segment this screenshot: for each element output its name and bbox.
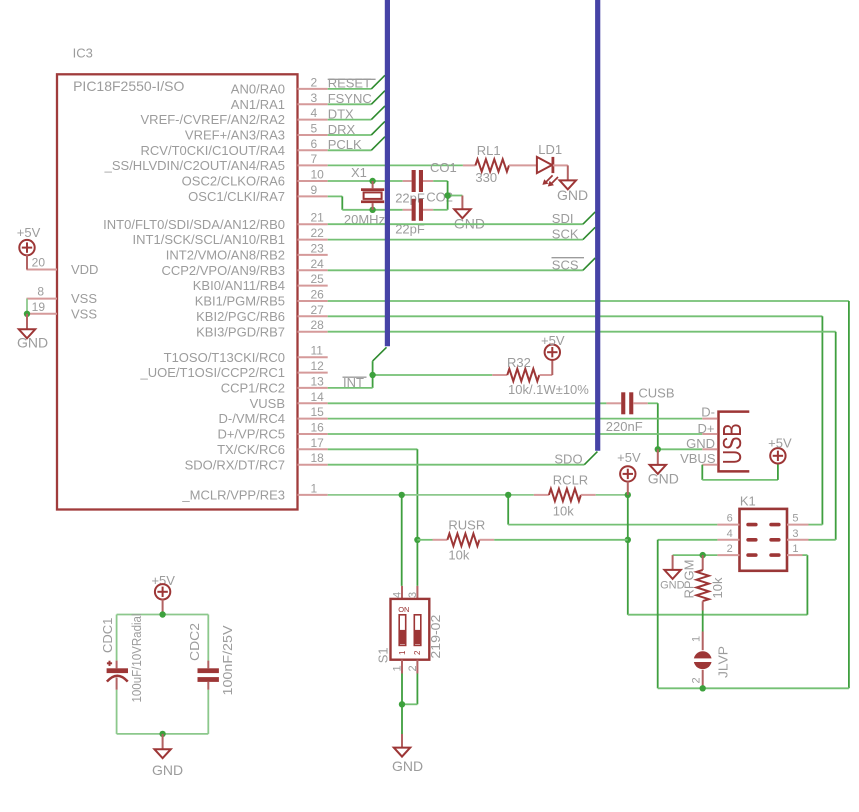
wire CDC loop left bbox=[116, 615, 118, 734]
crystal X1 20MHz bbox=[344, 165, 385, 227]
wire +5V down to RUSR and K1 pin1 loop bbox=[628, 495, 808, 615]
bus (left, to top connector) bbox=[385, 0, 390, 346]
+5V supply symbol (VBUS) bbox=[768, 435, 792, 463]
+5V supply symbol (R32) bbox=[541, 333, 565, 375]
svg-text:SCK: SCK bbox=[552, 227, 579, 242]
svg-text:7: 7 bbox=[311, 152, 318, 166]
wire net USR (RC6 pin17 to S1) bbox=[328, 449, 418, 586]
wire CDC loop right bbox=[207, 615, 209, 734]
svg-text:10k/.1W±10%: 10k/.1W±10% bbox=[508, 382, 589, 397]
ground GND (CO2) bbox=[454, 196, 485, 232]
wire net FSYNC bbox=[328, 91, 385, 105]
svg-text:4: 4 bbox=[391, 592, 403, 598]
svg-text:GND: GND bbox=[557, 187, 588, 203]
svg-text:20: 20 bbox=[32, 256, 46, 270]
svg-text:27: 27 bbox=[311, 303, 325, 317]
svg-text:CDC2: CDC2 bbox=[187, 623, 202, 661]
svg-text:K1: K1 bbox=[740, 494, 756, 509]
svg-text:1: 1 bbox=[690, 636, 702, 642]
wire CUSB right to USB GND bbox=[648, 403, 703, 449]
svg-text:2: 2 bbox=[407, 665, 419, 671]
node USR junction bbox=[414, 537, 420, 543]
svg-text:KBI3/PGD/RB7: KBI3/PGD/RB7 bbox=[196, 324, 285, 339]
resistor RCLR 10k bbox=[534, 472, 596, 518]
svg-text:RUSR: RUSR bbox=[448, 517, 485, 532]
wire CDC loop top bbox=[117, 614, 209, 616]
svg-text:100nF/25V: 100nF/25V bbox=[220, 625, 235, 695]
wire net SDO bbox=[328, 452, 598, 465]
svg-text:OSC1/CLKI/RA7: OSC1/CLKI/RA7 bbox=[188, 189, 285, 204]
svg-text:T1OSO/T13CKI/RC0: T1OSO/T13CKI/RC0 bbox=[164, 350, 285, 365]
svg-text:_SS/HLVDIN/C2OUT/AN4/RA5: _SS/HLVDIN/C2OUT/AN4/RA5 bbox=[104, 158, 285, 173]
svg-text:VREF-/CVREF/AN2/RA2: VREF-/CVREF/AN2/RA2 bbox=[141, 112, 285, 127]
capacitor CO1 22pF bbox=[395, 160, 457, 206]
svg-text:INT0/FLT0/SDI/SDA/AN12/RB0: INT0/FLT0/SDI/SDA/AN12/RB0 bbox=[103, 217, 285, 232]
wire net SCK bbox=[328, 227, 596, 239]
IC3 right-side pin stubs bbox=[298, 89, 328, 495]
svg-text:+5V: +5V bbox=[617, 450, 641, 465]
node label INT bbox=[343, 375, 367, 390]
svg-text:VSS: VSS bbox=[71, 291, 97, 306]
wire K1 pin2 to GND and RPGM bbox=[673, 554, 718, 556]
node OSC1 junction bbox=[369, 207, 375, 213]
svg-text:S1: S1 bbox=[375, 647, 390, 663]
svg-text:219-02: 219-02 bbox=[428, 615, 443, 659]
ground GND (LD1) bbox=[557, 180, 588, 202]
wire VSS pin8-pin19 bbox=[26, 299, 28, 314]
svg-text:2: 2 bbox=[727, 543, 733, 555]
ground GND (CDC) bbox=[152, 734, 183, 778]
svg-text:GND: GND bbox=[17, 335, 48, 351]
svg-text:+5V: +5V bbox=[17, 225, 41, 240]
svg-text:+5V: +5V bbox=[768, 435, 792, 450]
svg-text:1: 1 bbox=[398, 650, 407, 655]
wire OSC1 jog to crystal bottom bbox=[328, 196, 403, 209]
svg-text:AN0/RA0: AN0/RA0 bbox=[231, 82, 285, 97]
wire net DRX bbox=[328, 121, 385, 135]
node INT junction bbox=[369, 372, 375, 378]
wire RA5 to RL1 bbox=[328, 164, 463, 166]
svg-text:24: 24 bbox=[311, 257, 325, 271]
node +5V junction bbox=[625, 492, 631, 498]
node MCLR junction (K1) bbox=[505, 492, 511, 498]
wire K1 pin4 to PGM loop bbox=[658, 540, 849, 689]
resistor RUSR 10k bbox=[417, 517, 494, 562]
svg-text:1: 1 bbox=[792, 543, 798, 555]
svg-text:2: 2 bbox=[311, 75, 318, 89]
node USB GND junction bbox=[655, 446, 661, 452]
svg-text:19: 19 bbox=[32, 300, 46, 314]
resistor RL1 330 bbox=[463, 143, 537, 185]
svg-text:12: 12 bbox=[311, 359, 325, 373]
IC3 pin names (inside box, right aligned) bbox=[103, 82, 285, 503]
node label RESET bbox=[328, 76, 376, 91]
wire RPGM to JLVP bbox=[702, 611, 704, 632]
svg-text:SCS: SCS bbox=[552, 257, 579, 272]
capacitor CO2 22pF bbox=[395, 190, 453, 237]
svg-text:KBI2/PGC/RB6: KBI2/PGC/RB6 bbox=[196, 309, 285, 324]
svg-text:LD1: LD1 bbox=[538, 142, 562, 157]
svg-text:RL1: RL1 bbox=[477, 143, 501, 158]
capacitor CDC1 100uF/10V (polarized) bbox=[100, 613, 144, 702]
svg-text:SDO/RX/DT/RC7: SDO/RX/DT/RC7 bbox=[185, 457, 285, 472]
svg-text:INT1/SCK/SCL/AN10/RB1: INT1/SCK/SCL/AN10/RB1 bbox=[133, 232, 285, 247]
+5V supply symbol (RCLR/RUSR) bbox=[617, 450, 641, 495]
IC3 left-side pins VDD/VSS bbox=[27, 256, 99, 322]
connector K1 (ICSP header 2x3) bbox=[717, 494, 808, 571]
svg-text:CDC1: CDC1 bbox=[100, 618, 115, 653]
ground GND (S1) bbox=[392, 734, 423, 774]
jumper JLVP bbox=[690, 632, 730, 689]
svg-text:CCP2/VPO/AN9/RB3: CCP2/VPO/AN9/RB3 bbox=[161, 263, 285, 278]
svg-text:13: 13 bbox=[311, 374, 325, 388]
svg-text:RCV/T0CKI/C1OUT/RA4: RCV/T0CKI/C1OUT/RA4 bbox=[141, 143, 285, 158]
resistor R32 10k/.1W (pull-up on INT) bbox=[492, 355, 589, 397]
LED LD1 bbox=[537, 142, 568, 187]
connector USB bbox=[680, 405, 749, 472]
wire RCLR right to +5V node bbox=[596, 494, 628, 496]
node RPGM junction bbox=[700, 552, 706, 558]
node label SCS bbox=[552, 257, 585, 272]
svg-text:3: 3 bbox=[792, 528, 798, 540]
svg-text:CO1: CO1 bbox=[430, 160, 457, 175]
svg-text:IC3: IC3 bbox=[73, 46, 93, 61]
svg-text:14: 14 bbox=[311, 390, 325, 404]
resistor RPGM 10k (vertical) bbox=[682, 555, 726, 610]
svg-text:D+/VP/RC5: D+/VP/RC5 bbox=[217, 427, 285, 442]
svg-text:10k: 10k bbox=[553, 504, 574, 519]
wire net DTX bbox=[328, 106, 385, 120]
svg-text:D-: D- bbox=[701, 405, 715, 420]
svg-text:CCP1/RC2: CCP1/RC2 bbox=[221, 381, 285, 396]
svg-text:26: 26 bbox=[311, 288, 325, 302]
capacitor CDC2 100nF/25V bbox=[187, 623, 235, 696]
svg-text:2: 2 bbox=[413, 650, 422, 655]
svg-text:VREF+/AN3/RA3: VREF+/AN3/RA3 bbox=[185, 128, 285, 143]
IC IC3 PIC18F2550-I/SO bbox=[57, 46, 298, 510]
svg-text:22: 22 bbox=[311, 226, 325, 240]
svg-text:CUSB: CUSB bbox=[638, 385, 674, 400]
svg-text:18: 18 bbox=[311, 451, 325, 465]
svg-text:16: 16 bbox=[311, 421, 325, 435]
wire CO1/CO2 right side to GND bbox=[433, 181, 462, 210]
node OSC2 junction bbox=[369, 178, 375, 184]
svg-text:10: 10 bbox=[311, 168, 325, 182]
svg-text:9: 9 bbox=[311, 183, 318, 197]
svg-text:VUSB: VUSB bbox=[250, 396, 285, 411]
svg-text:15: 15 bbox=[311, 405, 325, 419]
svg-text:AN1/RA1: AN1/RA1 bbox=[231, 97, 285, 112]
svg-text:6: 6 bbox=[311, 137, 318, 151]
wire net PGD (RB7 pin28) to K1 pin3 bbox=[328, 332, 836, 540]
svg-text:PIC18F2550-I/SO: PIC18F2550-I/SO bbox=[73, 78, 184, 94]
svg-text:KBI0/AN11/RB4: KBI0/AN11/RB4 bbox=[193, 278, 285, 293]
wire CDC loop bottom bbox=[117, 733, 209, 735]
ground GND (VSS) bbox=[17, 314, 48, 351]
svg-text:28: 28 bbox=[311, 318, 325, 332]
svg-text:SDO: SDO bbox=[554, 452, 582, 467]
node CO1/CO2 junction bbox=[444, 192, 450, 198]
svg-text:3: 3 bbox=[407, 592, 419, 598]
svg-text:PCLK: PCLK bbox=[328, 137, 362, 152]
svg-text:4: 4 bbox=[311, 106, 318, 120]
ground GND (K1 pin2) bbox=[660, 555, 685, 592]
svg-text:OSC2/CLKO/RA6: OSC2/CLKO/RA6 bbox=[182, 174, 285, 189]
wire net INT from bus to CCP1/RC2 bbox=[328, 347, 493, 388]
svg-text:SDI: SDI bbox=[552, 211, 574, 226]
svg-text:220nF: 220nF bbox=[606, 419, 643, 434]
svg-text:10k: 10k bbox=[710, 577, 725, 598]
+5V supply symbol (VDD pin20) bbox=[17, 225, 41, 270]
svg-text:10k: 10k bbox=[448, 548, 469, 563]
svg-text:JLVP: JLVP bbox=[716, 646, 731, 678]
svg-text:DTX: DTX bbox=[328, 106, 354, 121]
svg-text:USB: USB bbox=[717, 423, 747, 464]
svg-text:5: 5 bbox=[311, 122, 318, 136]
wire VBUS to +5V bbox=[702, 463, 778, 480]
node JLVP pin2 junction bbox=[700, 685, 706, 691]
wire net SDI bbox=[328, 212, 596, 224]
svg-text:5: 5 bbox=[792, 513, 798, 525]
svg-text:R32: R32 bbox=[507, 355, 531, 370]
wire RUSR right to +5V vertical bbox=[494, 539, 628, 541]
svg-text:RESET: RESET bbox=[328, 76, 371, 91]
node MCLR junction (S1) bbox=[399, 492, 405, 498]
ground GND (USB) bbox=[648, 449, 679, 486]
bus (right, SPI) bbox=[595, 0, 600, 451]
wire net VUSB bbox=[328, 402, 607, 404]
svg-text:21: 21 bbox=[311, 211, 325, 225]
wire net PCLK bbox=[328, 137, 385, 151]
svg-text:8: 8 bbox=[37, 285, 44, 299]
wire net PGM (RB5 pin26) bbox=[328, 301, 849, 688]
svg-text:17: 17 bbox=[311, 436, 325, 450]
svg-text:VBUS: VBUS bbox=[680, 451, 716, 466]
node CDC bottom junction bbox=[159, 731, 165, 737]
switch S1 219-02 DIP bbox=[375, 586, 443, 674]
svg-text:TX/CK/RC6: TX/CK/RC6 bbox=[217, 442, 285, 457]
svg-text:VDD: VDD bbox=[71, 262, 98, 277]
svg-text:RPGM: RPGM bbox=[682, 560, 697, 599]
svg-text:ON: ON bbox=[398, 605, 409, 614]
wire net D- bbox=[328, 418, 703, 420]
wire net D+ bbox=[328, 433, 703, 435]
svg-text:6: 6 bbox=[727, 513, 733, 525]
IC3 right-side pin numbers bbox=[311, 75, 325, 495]
wire net PGC (RB6 pin27) to K1 pin5 bbox=[328, 316, 823, 524]
svg-text:25: 25 bbox=[311, 272, 325, 286]
svg-text:FSYNC: FSYNC bbox=[328, 91, 372, 106]
svg-text:RCLR: RCLR bbox=[553, 472, 588, 487]
node VSS junction bbox=[24, 311, 30, 317]
svg-text:_MCLR/VPP/RE3: _MCLR/VPP/RE3 bbox=[181, 488, 285, 503]
svg-text:D-/VM/RC4: D-/VM/RC4 bbox=[219, 411, 285, 426]
svg-text:1: 1 bbox=[391, 665, 403, 671]
svg-text:GND: GND bbox=[686, 436, 715, 451]
wire net RESET bbox=[328, 75, 385, 89]
svg-text:330: 330 bbox=[475, 170, 497, 185]
svg-text:3: 3 bbox=[311, 91, 318, 105]
capacitor CUSB 220nF bbox=[606, 385, 675, 434]
svg-text:+5V: +5V bbox=[541, 333, 565, 348]
svg-text:4: 4 bbox=[727, 528, 733, 540]
svg-text:+5V: +5V bbox=[151, 573, 175, 588]
+5V supply symbol (CDC) bbox=[151, 573, 175, 614]
svg-text:1: 1 bbox=[311, 481, 318, 495]
node S1 GND junction bbox=[399, 701, 405, 707]
svg-text:GND: GND bbox=[648, 470, 679, 486]
svg-text:100uF/10VRadial: 100uF/10VRadial bbox=[129, 613, 144, 702]
node CDC top junction bbox=[159, 611, 165, 617]
wire S1 bottom pins to GND bbox=[402, 674, 417, 735]
node RUSR/+5V junction bbox=[625, 537, 631, 543]
svg-text:INT2/VMO/AN8/RB2: INT2/VMO/AN8/RB2 bbox=[166, 248, 285, 263]
svg-text:KBI1/PGM/RB5: KBI1/PGM/RB5 bbox=[195, 294, 285, 309]
svg-text:11: 11 bbox=[311, 344, 324, 358]
svg-text:DRX: DRX bbox=[328, 122, 356, 137]
wire net SCS bbox=[328, 258, 596, 270]
wire net MCLR (pin1) bbox=[328, 495, 718, 586]
svg-text:23: 23 bbox=[311, 241, 325, 255]
svg-text:GND: GND bbox=[392, 758, 423, 774]
svg-text:VSS: VSS bbox=[71, 306, 97, 321]
svg-text:D+: D+ bbox=[698, 421, 715, 436]
wire OSC2 row to CO1 bbox=[328, 180, 403, 182]
svg-text:_UOE/T1OSI/CCP2/RC1: _UOE/T1OSI/CCP2/RC1 bbox=[140, 365, 286, 380]
svg-text:GND: GND bbox=[152, 762, 183, 778]
svg-text:X1: X1 bbox=[351, 165, 367, 180]
svg-text:2: 2 bbox=[690, 677, 702, 683]
